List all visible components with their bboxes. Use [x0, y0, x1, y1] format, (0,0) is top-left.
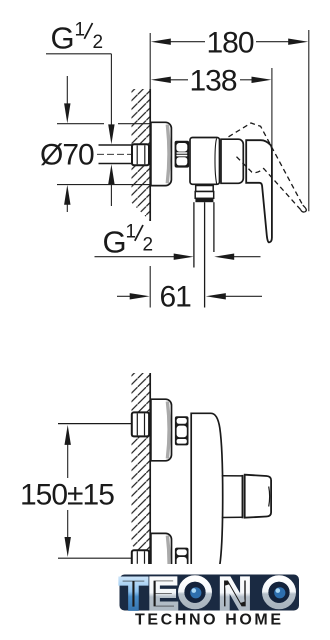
- svg-text:2: 2: [93, 32, 104, 53]
- svg-text:1: 1: [75, 20, 86, 41]
- svg-text:61: 61: [160, 281, 192, 314]
- svg-text:Ø70: Ø70: [40, 139, 94, 172]
- svg-text:G: G: [103, 225, 127, 260]
- svg-text:180: 180: [207, 27, 254, 60]
- svg-text:138: 138: [190, 65, 237, 98]
- svg-text:150±15: 150±15: [20, 479, 114, 512]
- svg-text:G: G: [51, 21, 75, 56]
- svg-text:2: 2: [143, 235, 154, 256]
- svg-text:1: 1: [126, 222, 137, 243]
- svg-text:TECHNO HOME: TECHNO HOME: [135, 612, 284, 629]
